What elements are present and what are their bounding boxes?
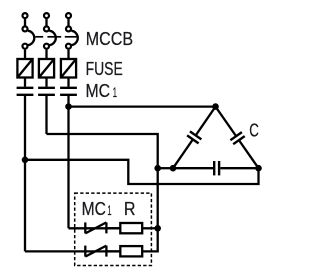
svg-text:MC: MC [82, 198, 106, 219]
svg-text:1: 1 [107, 202, 111, 218]
svg-text:MCCB: MCCB [86, 28, 133, 49]
svg-text:C: C [249, 120, 259, 141]
svg-text:FUSE: FUSE [86, 58, 123, 79]
svg-text:1: 1 [113, 84, 118, 100]
svg-text:MC: MC [86, 80, 111, 101]
svg-text:R: R [124, 198, 136, 219]
